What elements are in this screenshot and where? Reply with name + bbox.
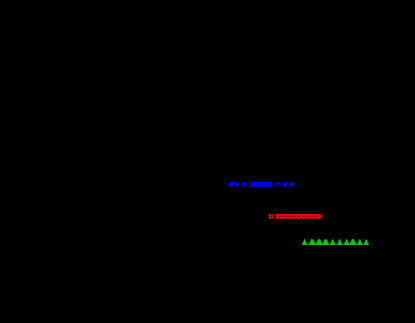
blue open circle 13: [277, 183, 280, 186]
blue cluster notch bottom: [256, 187, 257, 188]
blue filled circle 2: [229, 182, 234, 187]
green triangle 1: [302, 239, 308, 246]
blue filled circle 14: [283, 182, 288, 187]
green triangle 10: [363, 239, 369, 246]
green series (row of triangles, base y=245): [302, 239, 370, 246]
green triangle 2 (double): [309, 239, 315, 246]
blue cluster notch top: [256, 181, 257, 182]
blue diamond marker 15: [289, 182, 295, 188]
blue open circle 4: [242, 183, 245, 186]
green triangle 9: [357, 239, 363, 246]
blue cluster band: [249, 182, 273, 187]
blue series (row y=184.4): [228, 181, 295, 188]
green triangle 8 (double): [349, 239, 355, 246]
blue diamond marker 1: [228, 182, 233, 187]
red band holes: [278, 216, 279, 217]
green triangle 4 (double): [322, 239, 328, 246]
green triangle 7: [344, 239, 350, 246]
red open square isolated: [270, 215, 273, 218]
red band of overlapping squares: [276, 214, 321, 219]
red series (row y=216.3): [270, 214, 322, 219]
blue filled circle 3: [235, 182, 240, 187]
blue cluster hole 2: [260, 184, 262, 186]
blue cluster hole 3: [268, 184, 269, 185]
green triangle 5: [330, 239, 336, 246]
green triangle 3 (double): [315, 239, 321, 246]
green triangle 6: [337, 239, 343, 246]
blue cluster hole 1: [251, 184, 253, 186]
